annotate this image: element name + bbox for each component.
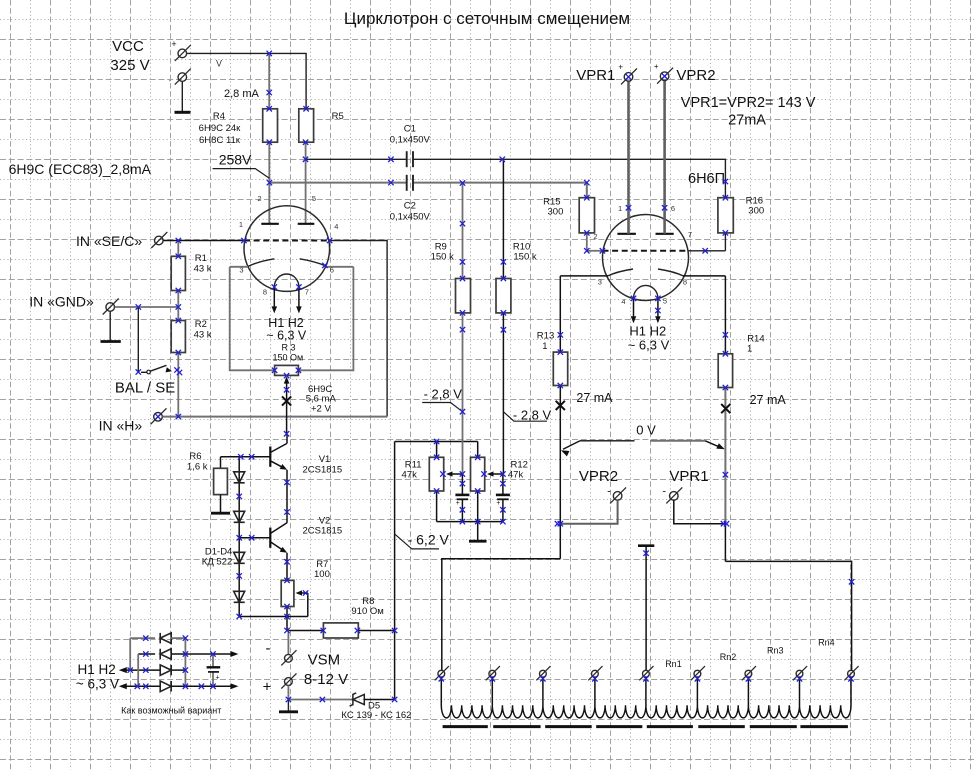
- svg-text:IN «SE/C»: IN «SE/C»: [76, 233, 142, 249]
- svg-text:6Н8С 11к: 6Н8С 11к: [199, 135, 241, 146]
- svg-text:+: +: [618, 63, 623, 72]
- svg-text:Как возможный вариант: Как возможный вариант: [121, 706, 221, 716]
- svg-text:325 V: 325 V: [110, 57, 149, 74]
- svg-text:IN «H»: IN «H»: [99, 418, 143, 434]
- svg-text:IN «GND»: IN «GND»: [29, 293, 94, 309]
- svg-text:VCC: VCC: [112, 38, 144, 55]
- svg-text:Rn3: Rn3: [767, 646, 784, 656]
- svg-text:Цирклотрон с сеточным смещение: Цирклотрон с сеточным смещением: [344, 9, 630, 28]
- svg-text:0 V: 0 V: [636, 423, 656, 438]
- svg-text:+: +: [263, 679, 272, 696]
- svg-text:6: 6: [671, 204, 675, 213]
- svg-text:5: 5: [663, 297, 667, 306]
- svg-text:+: +: [171, 39, 176, 49]
- svg-text:КС 139 - КС 162: КС 139 - КС 162: [341, 710, 411, 721]
- svg-text:300: 300: [748, 206, 764, 217]
- svg-text:Rn1: Rn1: [665, 659, 682, 669]
- svg-text:2: 2: [257, 194, 261, 203]
- svg-text:+: +: [654, 62, 659, 71]
- svg-text:8: 8: [263, 288, 267, 297]
- svg-text:C1: C1: [404, 124, 416, 135]
- svg-text:+2 V: +2 V: [311, 404, 331, 415]
- svg-text:H1 H2: H1 H2: [629, 324, 666, 339]
- svg-text:27 mA: 27 mA: [576, 391, 613, 405]
- svg-text:7: 7: [305, 288, 309, 297]
- svg-text:910 Ом: 910 Ом: [351, 606, 383, 617]
- svg-text:258V: 258V: [219, 152, 252, 168]
- svg-text:VPR1=VPR2= 143 V: VPR1=VPR2= 143 V: [681, 95, 816, 111]
- svg-text:~ 6,3 V: ~ 6,3 V: [266, 329, 307, 343]
- svg-text:+: +: [215, 675, 219, 682]
- svg-text:27mA: 27mA: [728, 113, 766, 129]
- svg-text:VPR2: VPR2: [579, 468, 618, 485]
- svg-text:43 k: 43 k: [194, 330, 212, 341]
- svg-text:150 Ом: 150 Ом: [273, 353, 304, 363]
- svg-text:BAL / SE: BAL / SE: [115, 379, 175, 396]
- svg-text:C2: C2: [404, 201, 416, 212]
- svg-text:R 3: R 3: [282, 343, 296, 353]
- svg-text:Rn4: Rn4: [818, 638, 835, 648]
- svg-text:Rn2: Rn2: [720, 652, 737, 662]
- svg-text:R2: R2: [195, 319, 207, 330]
- svg-text:1: 1: [542, 341, 547, 352]
- svg-text:150 k: 150 k: [513, 252, 536, 263]
- svg-text:+: +: [456, 500, 460, 507]
- svg-text:27 mA: 27 mA: [750, 393, 787, 407]
- svg-text:VSM: VSM: [308, 652, 341, 669]
- svg-text:-: -: [662, 486, 666, 498]
- svg-text:- 6,2 V: - 6,2 V: [408, 532, 450, 548]
- svg-text:43 k: 43 k: [194, 264, 212, 275]
- svg-text:5: 5: [312, 194, 316, 203]
- svg-text:-: -: [169, 76, 172, 85]
- svg-text:VPR1: VPR1: [669, 468, 708, 485]
- svg-text:R5: R5: [332, 111, 344, 122]
- svg-text:6Н6П: 6Н6П: [688, 171, 725, 187]
- svg-text:H1 H2: H1 H2: [78, 662, 116, 677]
- svg-text:1,6 k: 1,6 k: [187, 462, 208, 473]
- svg-text:~ 6,3 V: ~ 6,3 V: [76, 677, 119, 692]
- svg-text:6Н9С (ЕСС83)_2,8mA: 6Н9С (ЕСС83)_2,8mA: [9, 161, 152, 177]
- svg-text:300: 300: [548, 207, 564, 218]
- svg-text:4: 4: [621, 297, 625, 306]
- svg-text:-: -: [266, 640, 271, 657]
- svg-text:0,1х450V: 0,1х450V: [390, 212, 431, 223]
- svg-text:2CS1815: 2CS1815: [303, 465, 343, 476]
- svg-text:47k: 47k: [508, 470, 524, 481]
- svg-text:150 k: 150 k: [431, 252, 454, 263]
- svg-text:R6: R6: [189, 451, 201, 462]
- svg-text:100: 100: [314, 569, 330, 580]
- svg-text:1: 1: [618, 204, 622, 213]
- svg-text:R13: R13: [537, 331, 554, 342]
- svg-text:- 2,8 V: - 2,8 V: [424, 387, 463, 402]
- svg-text:V1: V1: [319, 454, 331, 465]
- svg-text:4: 4: [334, 222, 338, 231]
- svg-text:VPR2: VPR2: [676, 67, 715, 84]
- svg-text:2CS1815: 2CS1815: [303, 526, 343, 537]
- svg-text:~ 6,3 V: ~ 6,3 V: [628, 338, 670, 353]
- svg-text:КД 522: КД 522: [202, 557, 232, 568]
- svg-text:R1: R1: [195, 253, 207, 264]
- svg-text:7: 7: [688, 230, 692, 239]
- svg-text:1: 1: [747, 344, 752, 355]
- svg-text:47k: 47k: [402, 470, 418, 481]
- svg-text:R4: R4: [213, 111, 225, 122]
- svg-text:3: 3: [598, 278, 602, 287]
- svg-text:8: 8: [683, 278, 687, 287]
- svg-text:6Н9С 24к: 6Н9С 24к: [199, 123, 241, 134]
- svg-text:VPR1: VPR1: [576, 67, 615, 84]
- svg-text:2: 2: [593, 232, 597, 241]
- svg-text:2,8 mA: 2,8 mA: [224, 88, 260, 100]
- svg-text:+: +: [496, 500, 500, 507]
- svg-text:1: 1: [239, 220, 243, 229]
- svg-text:V: V: [216, 59, 222, 69]
- svg-text:- 2,8 V: - 2,8 V: [513, 408, 552, 423]
- svg-text:-: -: [607, 486, 611, 498]
- svg-text:0,1х450V: 0,1х450V: [390, 135, 431, 146]
- svg-text:8-12 V: 8-12 V: [304, 671, 348, 688]
